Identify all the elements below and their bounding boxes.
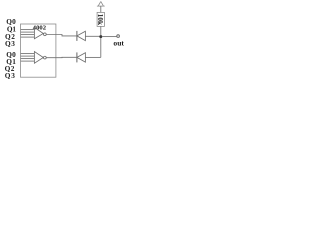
wire gate A input pin 3	[21, 34, 35, 36]
diode D2 cathode bar	[76, 52, 78, 62]
wire gate B input pin 3	[21, 58, 35, 60]
junction node dot	[99, 35, 102, 38]
gate U1a inverting bubble	[44, 33, 47, 36]
svg-text:Q3: Q3	[5, 39, 15, 48]
supply crossbar	[97, 5, 105, 7]
wire gate B input pin 1	[21, 53, 35, 55]
wire gate B input pin 4	[21, 60, 35, 62]
svg-text:Q3: Q3	[5, 71, 16, 80]
wire gate A input pin 2	[21, 31, 35, 33]
wire gate B input pin 2	[21, 55, 35, 57]
wire resistor to junction	[100, 26, 102, 36]
wire gate B output	[46, 56, 77, 58]
diode D2 triangle	[77, 53, 86, 62]
IC U1 box (4002 dual 4-input NOR)	[21, 24, 56, 77]
wire supply to resistor	[100, 6, 102, 12]
svg-text:10k: 10k	[96, 14, 104, 25]
wire gate A input pin 4	[21, 36, 35, 38]
NOR gate U1a triangle	[34, 27, 43, 38]
diode D1 cathode bar	[76, 31, 78, 41]
wire riser from junction down to D2 elbow	[100, 37, 102, 58]
wire junction to out terminal	[102, 36, 116, 38]
supply arrow (+V)	[98, 1, 103, 6]
wire diode D2 to riser elbow	[85, 56, 100, 58]
wire gate A output	[46, 35, 77, 36]
out terminal circle	[117, 35, 120, 38]
gate U1b inverting bubble	[44, 56, 47, 59]
wire gate A input pin 1	[21, 29, 35, 31]
resistor R1 body	[97, 12, 104, 26]
wire diode D1 to junction	[85, 35, 100, 37]
NOR gate U1b triangle	[34, 52, 43, 64]
svg-text:out: out	[113, 39, 124, 48]
diode D1 triangle	[77, 31, 86, 40]
